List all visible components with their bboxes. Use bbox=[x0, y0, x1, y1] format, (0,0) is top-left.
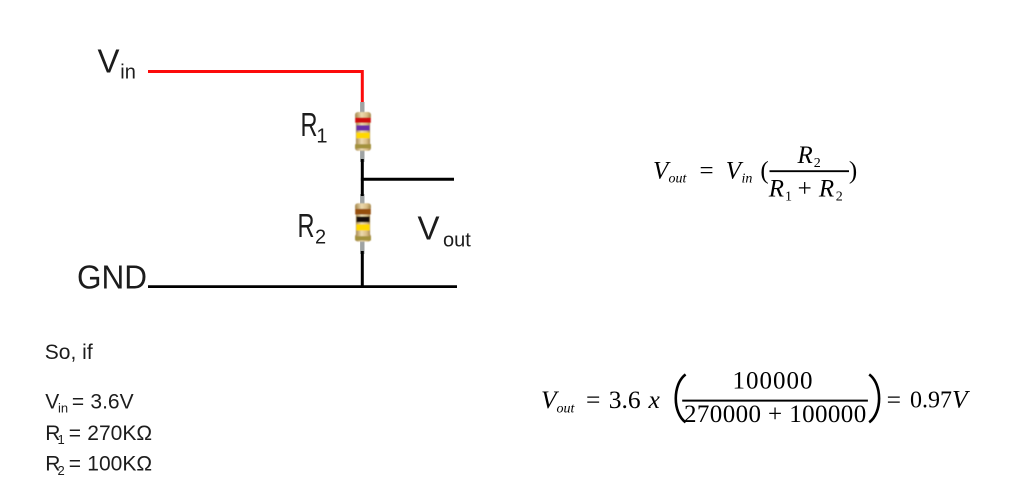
svg-text:+: + bbox=[798, 175, 812, 202]
svg-text:2: 2 bbox=[814, 156, 821, 171]
svg-text:270KΩ: 270KΩ bbox=[87, 422, 152, 445]
svg-text:=: = bbox=[69, 453, 81, 476]
svg-text:in: in bbox=[742, 172, 753, 187]
svg-text:100KΩ: 100KΩ bbox=[87, 453, 152, 476]
svg-text:R: R bbox=[818, 175, 834, 202]
svg-text:): ) bbox=[849, 158, 857, 185]
svg-text:2: 2 bbox=[315, 226, 326, 248]
svg-text:0.97: 0.97 bbox=[910, 388, 952, 414]
svg-text:So, if: So, if bbox=[45, 341, 93, 364]
svg-text:R: R bbox=[301, 106, 318, 143]
svg-text:out: out bbox=[443, 229, 471, 251]
svg-text:270000 + 100000: 270000 + 100000 bbox=[684, 401, 867, 428]
svg-text:V: V bbox=[952, 385, 971, 414]
svg-text:out: out bbox=[669, 172, 688, 187]
svg-text:=: = bbox=[586, 385, 600, 414]
svg-text:1: 1 bbox=[316, 126, 327, 148]
svg-text:GND: GND bbox=[77, 259, 147, 296]
svg-text:=: = bbox=[69, 422, 81, 445]
svg-text:R: R bbox=[298, 207, 315, 244]
svg-text:1: 1 bbox=[58, 432, 65, 447]
svg-text:100000: 100000 bbox=[733, 367, 814, 394]
svg-text:2: 2 bbox=[836, 189, 843, 204]
svg-text:3.6V: 3.6V bbox=[90, 391, 133, 414]
svg-text:2: 2 bbox=[58, 463, 65, 478]
svg-text:out: out bbox=[557, 401, 576, 416]
svg-text:R: R bbox=[797, 142, 813, 169]
svg-text:=: = bbox=[700, 158, 714, 185]
svg-text:(: ( bbox=[760, 158, 768, 185]
svg-text:3.6: 3.6 bbox=[609, 385, 641, 414]
svg-text:R: R bbox=[768, 175, 784, 202]
svg-text:1: 1 bbox=[785, 189, 792, 204]
svg-text:V: V bbox=[418, 210, 440, 247]
svg-text:in: in bbox=[58, 401, 68, 416]
svg-text:=: = bbox=[887, 385, 901, 414]
svg-text:x: x bbox=[648, 385, 661, 414]
svg-text:V: V bbox=[98, 42, 120, 79]
svg-text:=: = bbox=[72, 391, 84, 414]
svg-text:in: in bbox=[120, 61, 136, 83]
